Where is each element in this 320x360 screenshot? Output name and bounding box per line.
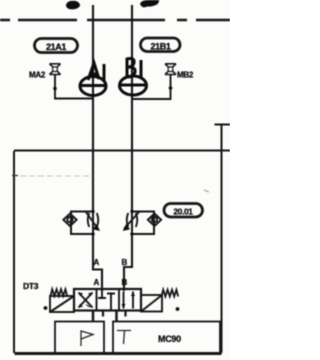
svg-text:20.01: 20.01	[173, 207, 193, 217]
svg-text:A: A	[94, 258, 100, 267]
svg-text:MA2: MA2	[29, 71, 46, 80]
spring right	[162, 290, 179, 297]
handwritten annotation B1	[120, 59, 148, 96]
throttle check valve assembly right	[123, 210, 161, 240]
svg-text:21A1: 21A1	[46, 42, 66, 52]
valve left position crossed arrows	[79, 293, 93, 308]
P manifold box	[55, 322, 104, 354]
test point MB2	[132, 64, 194, 99]
cut-off handwritten blob right	[140, 0, 159, 8]
cut-off handwritten blob left	[66, 1, 80, 10]
throttle check valve assembly left	[63, 210, 100, 240]
label pill 20.01	[164, 204, 203, 218]
svg-text:B: B	[122, 278, 128, 287]
T manifold box	[113, 322, 220, 354]
directional valve body	[74, 289, 141, 311]
valve port stub T	[115, 311, 118, 323]
solenoid left	[44, 296, 74, 312]
wire B line mid segments	[124, 234, 132, 291]
letter T	[117, 331, 131, 345]
short stub below right position	[124, 311, 126, 317]
wire line B vertical	[131, 5, 133, 211]
svg-text:MB2: MB2	[177, 71, 194, 80]
wire A line mid segments	[93, 234, 102, 291]
valve centre position blocked ports	[98, 289, 115, 311]
label pill 21A1	[35, 39, 78, 53]
label pill 21B1	[141, 38, 181, 52]
svg-text:MC90: MC90	[158, 334, 181, 344]
svg-text:21B1: 21B1	[151, 41, 171, 51]
svg-text:B: B	[122, 258, 128, 267]
test point MA2	[29, 64, 93, 99]
svg-text:A: A	[94, 278, 100, 287]
valve right position straight arrows	[122, 292, 136, 309]
svg-text:DT3: DT3	[23, 281, 39, 291]
spring left	[51, 289, 68, 296]
letter P	[81, 331, 93, 346]
wire line A vertical	[92, 5, 94, 211]
faint speck	[204, 190, 209, 192]
faint inner dashed line	[20, 175, 90, 177]
enclosure big rectangle	[14, 124, 230, 354]
valve port stub P	[92, 311, 95, 323]
handwritten annotation A1	[80, 63, 106, 96]
tick on left border	[12, 175, 18, 177]
phantom chain line top boundary	[0, 19, 230, 22]
short stub below centre position	[102, 311, 104, 317]
solenoid right	[141, 295, 179, 312]
